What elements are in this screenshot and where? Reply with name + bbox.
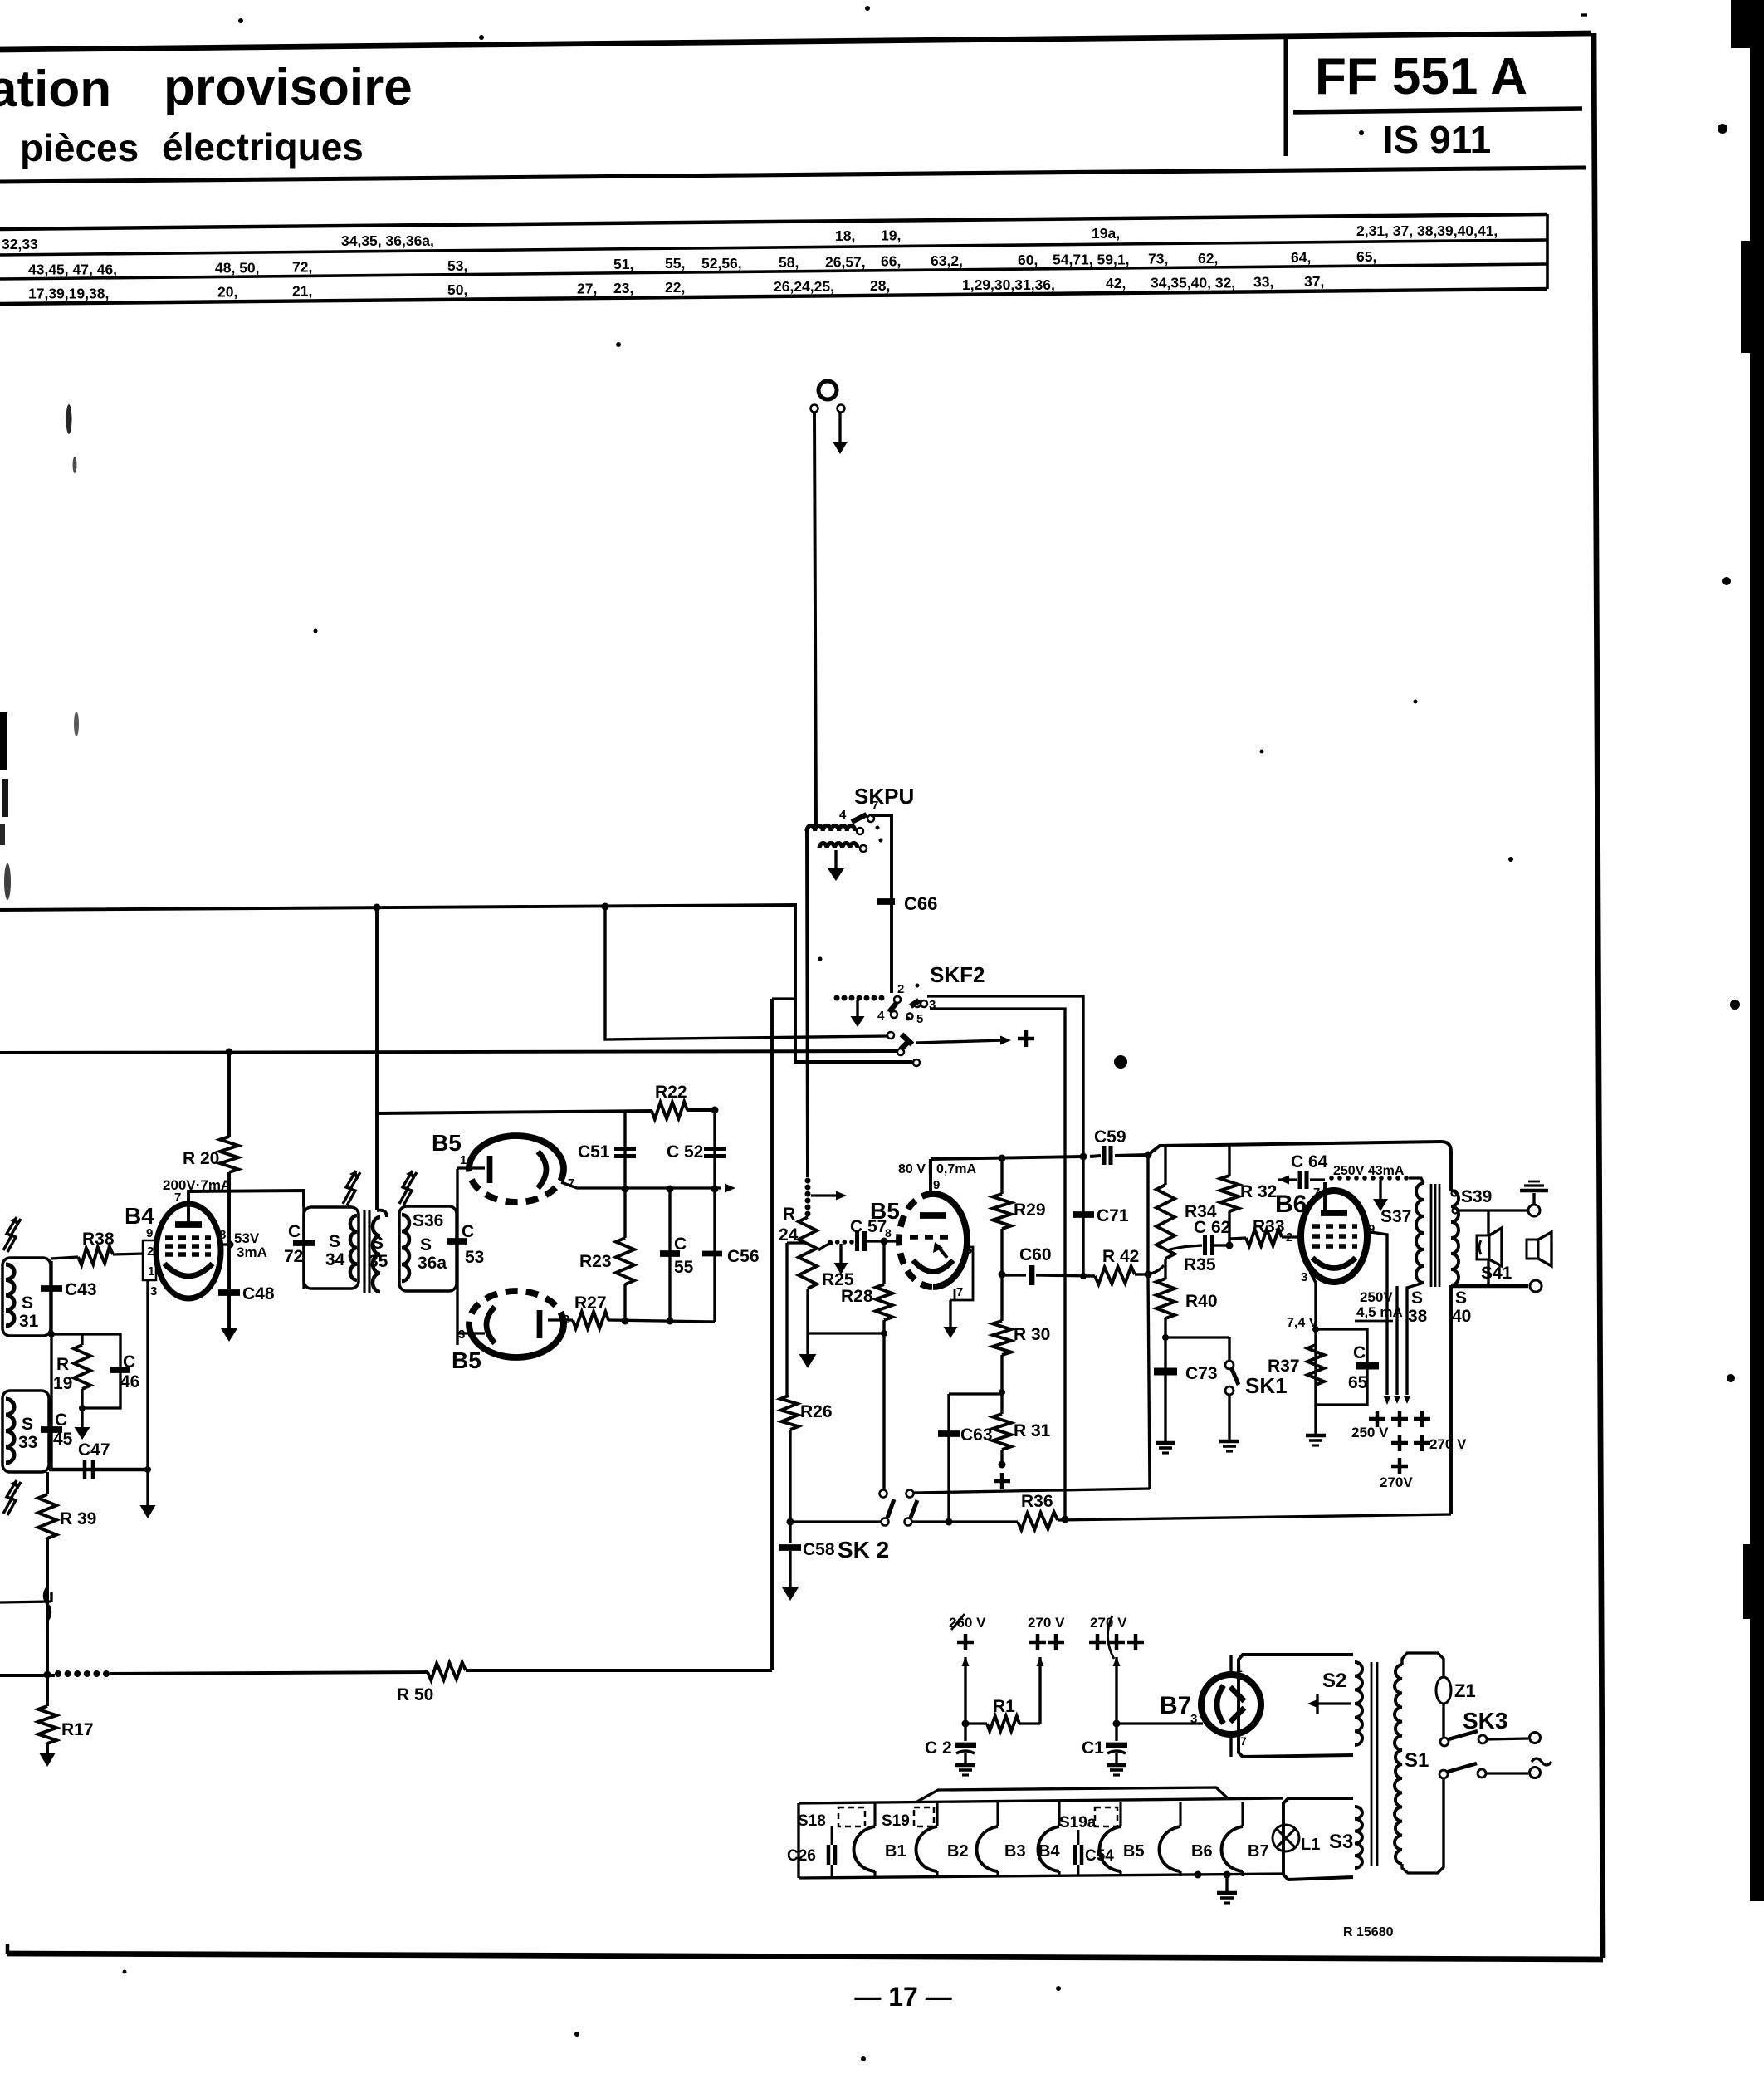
switch SK3 lower <box>1439 1763 1541 1778</box>
label B5 middle <box>870 1198 900 1224</box>
wire R36 line <box>912 1514 1451 1523</box>
capacitor C47 <box>49 1440 148 1479</box>
svg-text:42,: 42, <box>1106 275 1126 291</box>
label B5 lower <box>452 1347 481 1373</box>
plus 270V b <box>1089 1634 1144 1650</box>
table line 3 <box>0 264 1547 279</box>
svg-text:R22: R22 <box>655 1083 687 1102</box>
svg-text:22,: 22, <box>665 279 685 296</box>
plus under R31 <box>994 1473 1010 1489</box>
page top border <box>0 33 1591 50</box>
svg-text:C63: C63 <box>960 1425 993 1445</box>
svg-text:3: 3 <box>1190 1712 1197 1726</box>
svg-text:B1: B1 <box>885 1842 906 1861</box>
capacitor C43 <box>41 1261 97 1334</box>
trimmer arrow S36 <box>399 1171 417 1205</box>
svg-text:R 50: R 50 <box>397 1685 433 1704</box>
svg-text:270 V: 270 V <box>1028 1615 1065 1631</box>
tube B4 pin box <box>143 1226 157 1473</box>
ground at SKF2 <box>851 1000 865 1027</box>
svg-text:48, 50,: 48, 50, <box>215 260 260 276</box>
svg-text:C: C <box>288 1222 301 1241</box>
wire heater bottom bus <box>799 1871 1283 1879</box>
svg-text:C: C <box>674 1235 687 1254</box>
svg-text:54,71, 59,1,: 54,71, 59,1, <box>1053 252 1129 268</box>
switch SKF2 contact 2 <box>894 982 904 1003</box>
capacitor C66 <box>877 893 937 914</box>
svg-text:L1: L1 <box>1301 1836 1320 1854</box>
svg-text:34: 34 <box>325 1250 345 1269</box>
svg-text:19a,: 19a, <box>1092 225 1120 242</box>
svg-text:43,45, 47, 46,: 43,45, 47, 46, <box>28 262 117 278</box>
wire B5m pin6 box <box>950 1247 973 1300</box>
label B6 pins <box>1301 1186 1375 1284</box>
ground under SK1 <box>1219 1441 1239 1451</box>
svg-text:provisoire: provisoire <box>164 59 413 116</box>
page right border <box>1594 33 1603 1958</box>
table right edge <box>1546 214 1549 289</box>
svg-text:B4: B4 <box>125 1203 154 1229</box>
svg-text:46: 46 <box>120 1372 139 1391</box>
svg-text:65,: 65, <box>1356 248 1376 265</box>
capacitor C55 <box>660 1189 694 1322</box>
svg-text:SKPU: SKPU <box>854 784 914 809</box>
svg-text:20,: 20, <box>217 284 237 301</box>
pickup connector <box>818 381 837 399</box>
svg-text:18,: 18, <box>835 227 855 244</box>
svg-text:S1: S1 <box>1405 1749 1429 1772</box>
wire 260V rail <box>961 1657 969 1728</box>
svg-text:19,: 19, <box>881 227 901 244</box>
label 7,4V <box>1287 1316 1318 1330</box>
svg-text:33,: 33, <box>1253 273 1273 290</box>
heater B4 heater <box>1038 1802 1061 1876</box>
resistor R28 <box>841 1243 892 1489</box>
ground under C58 <box>782 1587 799 1601</box>
tube B4 <box>156 1193 221 1298</box>
wire B7 pin1 <box>1229 1655 1232 1675</box>
svg-text:6: 6 <box>965 1243 972 1257</box>
scan edge right <box>1581 0 1764 1901</box>
switch SK1 <box>1225 1337 1288 1440</box>
svg-text:C60: C60 <box>1019 1245 1052 1264</box>
transformer S36 <box>399 1206 457 1291</box>
svg-text:S: S <box>1411 1289 1423 1308</box>
wire S38 tap <box>1404 1283 1424 1404</box>
label SKPU <box>854 784 914 809</box>
wire B6 pin3 <box>1310 1272 1319 1333</box>
svg-text:S2: S2 <box>1322 1670 1346 1692</box>
resistor R37 <box>1307 1345 1324 1385</box>
capacitor C46 <box>79 1334 139 1411</box>
svg-text:2: 2 <box>897 982 904 996</box>
label 260V <box>949 1614 986 1631</box>
svg-text:R 20: R 20 <box>183 1149 219 1168</box>
svg-text:34,35, 36,36a,: 34,35, 36,36a, <box>341 232 434 249</box>
svg-text:3: 3 <box>1301 1270 1307 1284</box>
capacitor C60 <box>1002 1245 1095 1285</box>
wire R50 bus <box>0 1670 772 1679</box>
switch SKF2 bottom contact <box>913 1059 920 1066</box>
svg-text:S: S <box>1455 1289 1467 1308</box>
switch SK2 right <box>905 1490 918 1526</box>
header underline <box>0 168 1586 182</box>
wire 270V rail b <box>1112 1657 1120 1728</box>
capacitor C57 <box>850 1217 887 1251</box>
resistor R29 <box>993 1159 1046 1279</box>
resistor R20 <box>183 1049 238 1290</box>
core adjust arrow S2 <box>1307 1694 1351 1714</box>
svg-text:250 V: 250 V <box>1351 1425 1389 1440</box>
potentiometer R24 <box>779 1178 817 1289</box>
svg-text:C: C <box>462 1222 474 1241</box>
resistor R38 <box>51 1230 144 1265</box>
wire B5m pin9 <box>931 1159 940 1194</box>
label 270V b <box>1090 1615 1127 1659</box>
stray ink dot <box>1114 1055 1127 1069</box>
svg-text:C1: C1 <box>1082 1738 1104 1758</box>
transformer S33 <box>2 1391 49 1472</box>
tube B7 rectifier <box>1201 1661 1261 1748</box>
coil SKPU secondary <box>819 844 867 853</box>
wire heater bypass <box>917 1787 1229 1802</box>
svg-text:32,33: 32,33 <box>2 236 38 252</box>
svg-text:C43: C43 <box>65 1280 97 1299</box>
table row 3 numbers <box>28 273 1324 302</box>
heater B7 heater <box>1222 1802 1269 1876</box>
svg-text:80 V: 80 V <box>898 1162 926 1176</box>
svg-text:C56: C56 <box>727 1247 760 1266</box>
svg-text:250V 43mA: 250V 43mA <box>1333 1164 1405 1178</box>
ground under R19 <box>75 1408 90 1440</box>
transformer core S1 <box>1371 1662 1377 1866</box>
scan smudge left <box>0 404 79 900</box>
svg-text:55: 55 <box>674 1258 694 1277</box>
resistor R26 <box>780 1243 832 1526</box>
svg-text:5: 5 <box>916 1012 923 1026</box>
resistor R30 <box>993 1274 1050 1396</box>
tube B5 middle <box>899 1194 967 1287</box>
label 270V a <box>1028 1615 1065 1631</box>
svg-text:2: 2 <box>1286 1230 1292 1245</box>
svg-text:66,: 66, <box>881 253 901 270</box>
page number <box>854 1982 951 2012</box>
svg-text:C: C <box>1353 1343 1366 1362</box>
wire B5u plate line <box>561 1182 735 1193</box>
capacitor C26 <box>787 1826 835 1876</box>
capacitor C54 <box>1075 1830 1114 1875</box>
ground arrow at pickup <box>833 413 848 454</box>
table line 4 <box>0 289 1547 304</box>
resistor R1 <box>965 1697 1040 1731</box>
ground under C48 <box>221 1328 237 1342</box>
svg-text:260 V: 260 V <box>949 1615 986 1631</box>
label B5m pins <box>956 1243 972 1299</box>
switch SK3 upper <box>1440 1731 1541 1746</box>
wire B6 plate dotted <box>1329 1164 1409 1181</box>
svg-text:R17: R17 <box>61 1720 94 1739</box>
svg-text:R26: R26 <box>800 1402 833 1421</box>
trimmer arrow S31 <box>3 1217 21 1252</box>
tube B6 <box>1301 1182 1367 1282</box>
wire C1 to B7 <box>1117 1722 1203 1724</box>
svg-text:R40: R40 <box>1185 1292 1218 1311</box>
table row 2 numbers <box>28 248 1376 278</box>
capacitor C65 <box>1348 1343 1379 1392</box>
svg-text:3mA: 3mA <box>237 1245 267 1260</box>
wire bus B <box>0 1051 897 1053</box>
svg-text:C51: C51 <box>578 1142 610 1161</box>
wire C43 node <box>48 1331 82 1337</box>
svg-text:2,31, 37, 38,39,40,41,: 2,31, 37, 38,39,40,41, <box>1356 223 1498 239</box>
capacitor C52 <box>667 1110 726 1189</box>
svg-text:C26: C26 <box>787 1847 816 1865</box>
svg-text:S19: S19 <box>882 1812 910 1830</box>
transducer S41 <box>1477 1210 1512 1286</box>
svg-text:S3: S3 <box>1329 1831 1353 1853</box>
svg-text:B2: B2 <box>947 1842 969 1861</box>
title FF 551 A <box>1315 48 1527 105</box>
svg-text:S18: S18 <box>798 1812 826 1830</box>
ground under B4 <box>140 1470 156 1518</box>
capacitor C59 <box>1094 1127 1126 1165</box>
ground at SKPU coil <box>828 850 844 881</box>
svg-text:C: C <box>123 1352 135 1372</box>
wire HT to SK2 line <box>1148 1155 1150 1489</box>
svg-text:36a: 36a <box>418 1254 447 1273</box>
svg-text:1: 1 <box>460 1153 467 1167</box>
resistor R37 C65 box <box>1268 1329 1367 1405</box>
transformer S3 <box>1283 1798 1362 1880</box>
svg-text:7: 7 <box>174 1191 181 1205</box>
header title text <box>0 59 413 169</box>
resistor R17 <box>38 1675 94 1767</box>
svg-text:31: 31 <box>19 1312 39 1331</box>
wire R24 wiper <box>818 1240 854 1250</box>
svg-text:63,2,: 63,2, <box>931 252 963 269</box>
svg-text:33: 33 <box>18 1433 37 1452</box>
svg-text:34,35,40, 32,: 34,35,40, 32, <box>1151 275 1235 291</box>
svg-text:S: S <box>22 1415 33 1434</box>
table row 1 numbers <box>2 223 1498 252</box>
ground arrow B6 plate <box>1373 1180 1388 1211</box>
wire S37 tap <box>1394 1286 1400 1404</box>
svg-text:R29: R29 <box>1014 1201 1046 1220</box>
svg-text:B4: B4 <box>1038 1842 1060 1861</box>
svg-text:72,: 72, <box>292 259 312 276</box>
wire SK2 feed <box>790 1520 881 1523</box>
switch SKPU lever <box>839 799 883 843</box>
svg-text:S: S <box>420 1235 432 1254</box>
svg-text:R 42: R 42 <box>1102 1247 1139 1266</box>
svg-text:B7: B7 <box>1160 1692 1191 1719</box>
capacitor C1 <box>1082 1724 1127 1763</box>
svg-text:— 17 —: — 17 — <box>854 1982 951 2012</box>
mains symbol <box>1532 1758 1551 1765</box>
svg-text:R36: R36 <box>1021 1492 1053 1511</box>
svg-text:C58: C58 <box>803 1540 835 1559</box>
wire main HT bus <box>931 1153 1148 1162</box>
wire branch bus <box>602 903 888 1040</box>
svg-text:27,: 27, <box>577 280 597 296</box>
svg-text:S41: S41 <box>1481 1264 1512 1283</box>
svg-text:28,: 28, <box>870 277 890 294</box>
resistor R34 <box>1156 1147 1217 1259</box>
svg-text:C71: C71 <box>1097 1206 1129 1225</box>
svg-text:7: 7 <box>872 799 878 813</box>
wire B6 pin9 <box>1366 1231 1390 1405</box>
svg-text:53: 53 <box>465 1248 484 1267</box>
svg-text:FF 551 A: FF 551 A <box>1315 48 1527 105</box>
heater B3 <box>977 1802 1026 1876</box>
svg-text:26,24,25,: 26,24,25, <box>774 278 834 295</box>
svg-text:38: 38 <box>1408 1307 1428 1326</box>
svg-text:8: 8 <box>885 1226 892 1240</box>
svg-text:C 2: C 2 <box>925 1738 952 1758</box>
svg-text:S: S <box>329 1232 340 1251</box>
svg-text:1,29,30,31,36,: 1,29,30,31,36, <box>962 276 1055 293</box>
capacitor C51 <box>578 1110 636 1189</box>
pickup terminal left <box>811 405 818 413</box>
svg-text:R: R <box>56 1355 69 1374</box>
capacitor C2 <box>925 1724 976 1763</box>
svg-text:S: S <box>22 1293 33 1313</box>
svg-text:R: R <box>783 1205 795 1224</box>
label SKF2 <box>930 962 985 987</box>
resistor R22 <box>652 1083 719 1119</box>
svg-text:R 32: R 32 <box>1240 1182 1277 1201</box>
signal arrow SKF2 <box>916 1036 1011 1045</box>
svg-text:4: 4 <box>839 808 847 822</box>
svg-text:B5: B5 <box>870 1198 900 1224</box>
title box middle line <box>1293 109 1582 112</box>
transformer S39 S40 secondary <box>1451 1187 1492 1326</box>
transformer S34 <box>304 1207 359 1289</box>
heater B1 <box>854 1802 906 1876</box>
svg-text:SK3: SK3 <box>1463 1708 1507 1734</box>
svg-text:Z1: Z1 <box>1454 1680 1476 1701</box>
svg-text:C 52: C 52 <box>667 1142 703 1161</box>
svg-text:51,: 51, <box>613 256 633 272</box>
speaker <box>1527 1232 1551 1266</box>
svg-text:270V: 270V <box>1380 1474 1413 1490</box>
fuse Z1 <box>1436 1677 1476 1737</box>
svg-text:S: S <box>372 1234 384 1253</box>
svg-text:45: 45 <box>53 1430 73 1449</box>
heater B2 <box>916 1802 969 1876</box>
amplifier box top <box>1148 1142 1451 1514</box>
svg-text:58,: 58, <box>779 254 799 271</box>
capacitor C48 <box>218 1284 275 1328</box>
wire C63 stub <box>946 1394 1003 1526</box>
capacitor C64 <box>1278 1152 1328 1189</box>
svg-text:IS 911: IS 911 <box>1383 118 1491 161</box>
svg-text:9: 9 <box>1368 1222 1375 1236</box>
title box divider <box>1283 36 1288 156</box>
ground under C1 <box>1107 1765 1126 1775</box>
fuse S18 <box>798 1807 865 1830</box>
coil SKPU primary <box>807 825 863 834</box>
resistor R42 <box>1080 1247 1152 1284</box>
svg-text:C 62: C 62 <box>1194 1218 1230 1237</box>
svg-text:73,: 73, <box>1148 251 1168 267</box>
plus 270V a <box>1029 1634 1064 1650</box>
coil SKF2 dotted <box>834 995 885 1001</box>
resistor R33 <box>1229 1217 1300 1246</box>
wire heater top bus <box>799 1798 1283 1803</box>
transformer core <box>1431 1184 1439 1287</box>
label B4 <box>125 1203 154 1229</box>
switch SKF2 lower contact <box>897 1039 911 1055</box>
plus mark SKF2 <box>1018 1030 1034 1047</box>
svg-text:C66: C66 <box>904 893 937 914</box>
resistor R39 <box>38 1472 96 1674</box>
trimmer arrow S34 <box>343 1171 360 1205</box>
svg-text:B5: B5 <box>432 1130 462 1156</box>
pickup terminal right <box>838 405 845 413</box>
wire speaker bottom <box>1453 1280 1542 1292</box>
table line 1 <box>0 214 1547 229</box>
label B6 <box>1275 1191 1307 1218</box>
wire SKF2-5 to R36 <box>930 1009 1065 1518</box>
wire B4 pin8 <box>221 1241 234 1249</box>
switch SKF2 contact 3 <box>906 984 936 1021</box>
wire SK2 upper line <box>914 1152 1152 1494</box>
wire R24 bottom <box>808 1289 887 1337</box>
capacitor C62 <box>1167 1218 1230 1255</box>
wire top feed line <box>377 1111 652 1113</box>
svg-text:R37: R37 <box>1268 1357 1300 1376</box>
ground under wiper <box>834 1244 848 1274</box>
label SK3 <box>1463 1708 1507 1734</box>
ground under C2 <box>955 1765 975 1775</box>
capacitor C72 <box>284 1207 315 1289</box>
trimmer arrow S33 <box>3 1480 21 1515</box>
wire heater left end <box>797 1803 799 1878</box>
svg-text:72: 72 <box>284 1247 303 1266</box>
svg-text:270 V: 270 V <box>1429 1436 1467 1452</box>
svg-text:pièces: pièces <box>20 126 139 169</box>
capacitor C71 <box>1073 1157 1129 1276</box>
svg-text:C 64: C 64 <box>1291 1152 1328 1171</box>
wire artifact left <box>0 1587 51 1621</box>
resistor R36 <box>1018 1492 1058 1530</box>
svg-text:R1: R1 <box>993 1697 1015 1716</box>
drawing number <box>1343 1925 1394 1939</box>
svg-text:60,: 60, <box>1018 252 1038 268</box>
core S34-S35 <box>364 1210 369 1293</box>
svg-text:1: 1 <box>148 1264 154 1279</box>
label R25 <box>822 1270 854 1289</box>
svg-text:B5: B5 <box>452 1347 481 1373</box>
ground under R24 <box>799 1333 817 1368</box>
svg-text:0,7mA: 0,7mA <box>936 1162 976 1176</box>
svg-text:62,: 62, <box>1198 250 1218 267</box>
svg-text:50,: 50, <box>447 281 467 298</box>
svg-text:19: 19 <box>53 1374 72 1393</box>
transformer S31 <box>2 1258 51 1336</box>
resistor R27 <box>548 1293 608 1328</box>
svg-text:40: 40 <box>1452 1307 1471 1326</box>
label 80V 0,7mA <box>898 1161 976 1176</box>
resistor R32 <box>1220 1144 1277 1249</box>
capacitor C63 <box>938 1425 993 1445</box>
svg-text:SK 2: SK 2 <box>838 1537 889 1562</box>
svg-text:R27: R27 <box>574 1293 607 1313</box>
wire speaker top <box>1458 1205 1540 1216</box>
title IS 911 <box>1383 118 1491 161</box>
transformer S1 <box>1395 1653 1444 1873</box>
